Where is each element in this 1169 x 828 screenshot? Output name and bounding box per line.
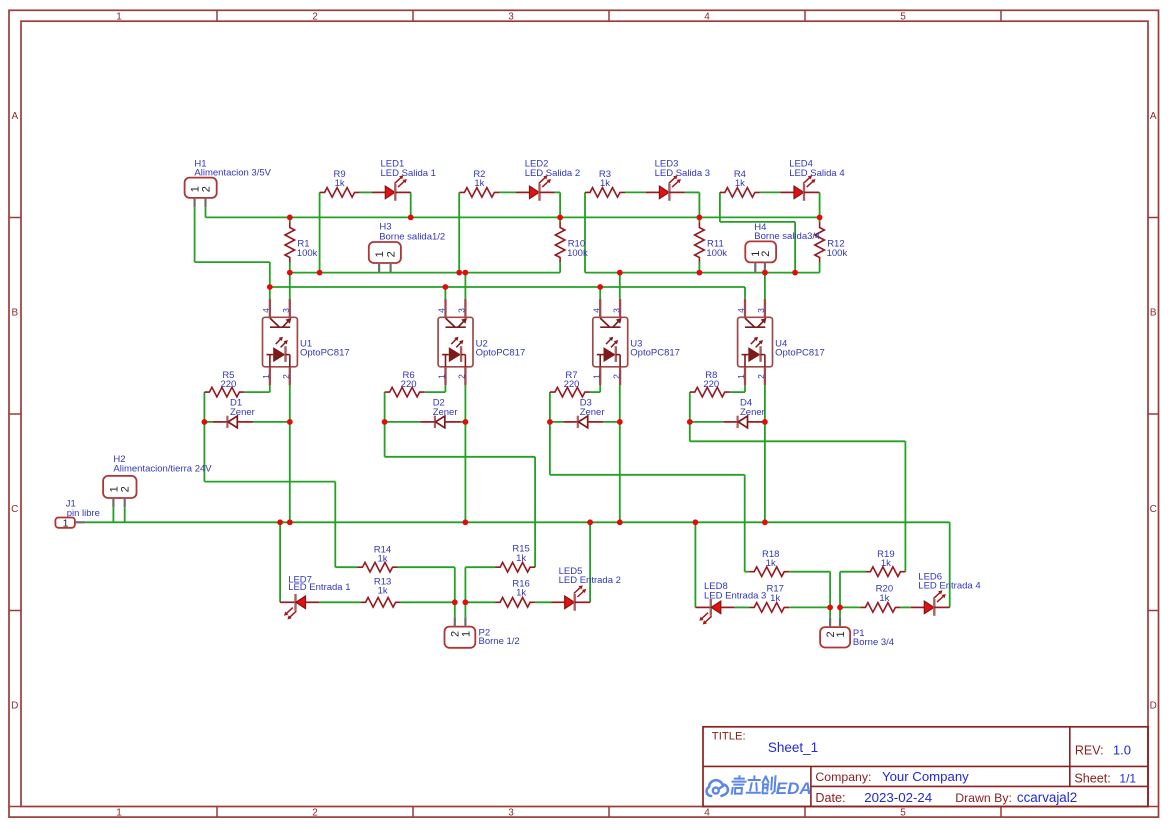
svg-text:5: 5 [900,12,906,23]
svg-text:LED Entrada 4: LED Entrada 4 [918,581,980,592]
svg-text:1k: 1k [600,178,610,189]
svg-text:B: B [11,308,18,319]
svg-text:Date:: Date: [815,791,845,805]
svg-text:Sheet_1: Sheet_1 [768,740,818,755]
svg-text:3: 3 [611,308,621,313]
svg-text:2: 2 [200,186,212,192]
svg-text:4: 4 [736,308,746,313]
svg-text:ccarvajal2: ccarvajal2 [1017,790,1077,805]
svg-text:220: 220 [703,379,719,390]
svg-text:1/1: 1/1 [1119,771,1136,785]
svg-text:100k: 100k [706,248,727,259]
svg-text:Drawn By:: Drawn By: [955,791,1012,805]
svg-text:2: 2 [611,374,621,379]
svg-text:pin libre: pin libre [67,508,100,519]
svg-text:1k: 1k [735,178,745,189]
svg-text:LED Entrada 1: LED Entrada 1 [288,582,350,593]
svg-text:EDA: EDA [776,779,812,798]
svg-text:4: 4 [261,308,271,313]
svg-text:1.0: 1.0 [1113,743,1131,758]
svg-text:1: 1 [116,12,122,23]
svg-text:Alimentacion/tierra 24V: Alimentacion/tierra 24V [113,464,212,475]
svg-text:Your Company: Your Company [882,769,969,784]
svg-text:TITLE:: TITLE: [712,731,746,743]
svg-text:1k: 1k [516,553,526,564]
svg-text:1k: 1k [378,586,388,597]
svg-text:Sheet:: Sheet: [1074,771,1110,785]
svg-text:100k: 100k [827,248,848,259]
svg-text:B: B [1150,308,1157,319]
svg-text:4: 4 [704,807,710,818]
svg-text:Zener: Zener [580,407,605,418]
svg-text:Borne 1/2: Borne 1/2 [479,636,520,647]
svg-text:2: 2 [760,251,772,257]
svg-text:2: 2 [312,807,318,818]
svg-text:2: 2 [120,486,132,492]
svg-text:C: C [1150,504,1157,515]
svg-text:1: 1 [116,807,122,818]
svg-text:1k: 1k [474,178,484,189]
svg-text:220: 220 [220,379,236,390]
svg-text:3: 3 [508,807,514,818]
svg-text:2: 2 [386,251,398,257]
svg-text:Zener: Zener [740,407,765,418]
svg-text:OptoPC817: OptoPC817 [775,348,825,359]
svg-text:LED Salida 3: LED Salida 3 [655,168,710,179]
svg-text:OptoPC817: OptoPC817 [630,348,680,359]
svg-text:1: 1 [63,517,69,529]
svg-text:100k: 100k [567,248,588,259]
svg-text:4: 4 [437,308,447,313]
svg-text:220: 220 [564,379,580,390]
svg-text:Company:: Company: [815,770,871,784]
svg-text:C: C [11,504,18,515]
svg-text:LED Salida 2: LED Salida 2 [525,168,580,179]
svg-text:Borne 3/4: Borne 3/4 [853,637,894,648]
svg-text:LED Salida 1: LED Salida 1 [381,168,436,179]
svg-text:2: 2 [312,12,318,23]
svg-text:Zener: Zener [230,407,255,418]
svg-text:1: 1 [591,374,601,379]
svg-text:3: 3 [508,12,514,23]
svg-text:LED Entrada 3: LED Entrada 3 [704,591,766,602]
svg-text:OptoPC817: OptoPC817 [300,348,350,359]
svg-text:220: 220 [401,379,417,390]
svg-text:D: D [11,701,18,712]
svg-text:1: 1 [261,374,271,379]
svg-text:5: 5 [900,807,906,818]
svg-text:Borne salida1/2: Borne salida1/2 [379,231,445,242]
svg-text:A: A [1150,111,1157,122]
svg-text:1k: 1k [516,587,526,598]
svg-text:1k: 1k [770,593,780,604]
svg-text:4: 4 [704,12,710,23]
svg-text:1: 1 [736,374,746,379]
svg-text:2023-02-24: 2023-02-24 [864,790,932,805]
svg-text:Borne salida3/4: Borne salida3/4 [754,231,820,242]
svg-text:2: 2 [756,374,766,379]
svg-text:LED Entrada 2: LED Entrada 2 [559,575,621,586]
svg-text:1k: 1k [766,558,776,569]
svg-text:LED Salida 4: LED Salida 4 [789,168,844,179]
svg-text:1k: 1k [335,178,345,189]
svg-text:1: 1 [835,631,847,637]
svg-text:3: 3 [756,308,766,313]
svg-text:1: 1 [437,374,447,379]
svg-text:A: A [11,111,18,122]
svg-text:1: 1 [374,251,386,257]
svg-text:OptoPC817: OptoPC817 [476,348,526,359]
svg-text:Alimentacion 3/5V: Alimentacion 3/5V [194,168,271,179]
svg-text:1: 1 [108,486,120,492]
svg-text:D: D [1150,701,1157,712]
svg-text:3: 3 [281,308,291,313]
svg-text:4: 4 [591,308,601,313]
svg-text:REV:: REV: [1075,744,1104,758]
svg-text:1k: 1k [881,558,891,569]
svg-text:2: 2 [281,374,291,379]
svg-text:3: 3 [457,308,467,313]
svg-text:2: 2 [457,374,467,379]
svg-text:1k: 1k [377,554,387,565]
svg-text:1: 1 [460,631,472,637]
svg-text:100k: 100k [297,248,318,259]
svg-text:1k: 1k [879,593,889,604]
svg-text:Zener: Zener [433,407,458,418]
